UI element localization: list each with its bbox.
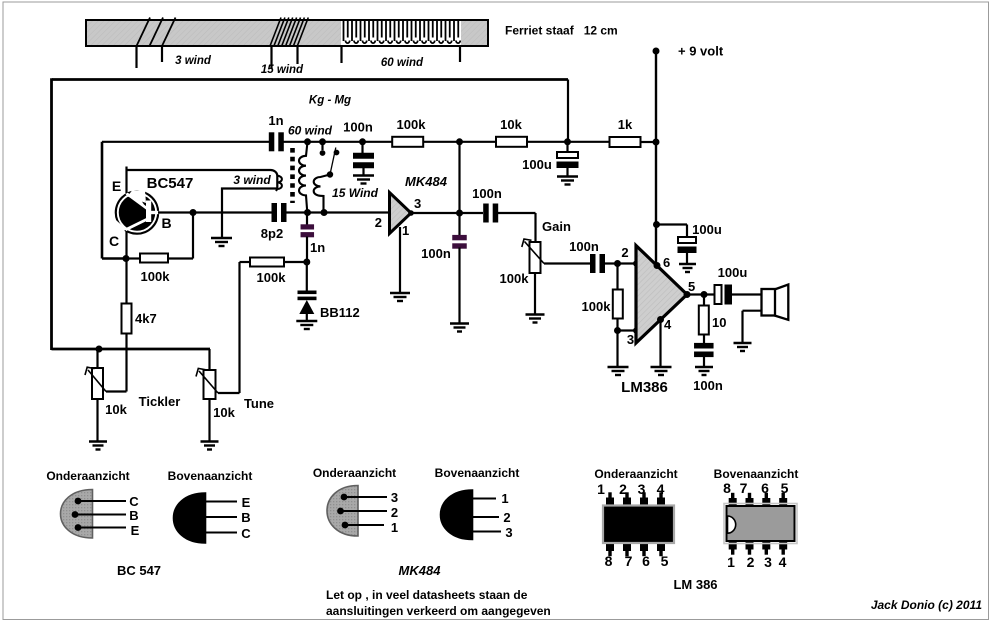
coil L3 60 wind winding band (341, 21, 461, 45)
transformer core dashed (290, 148, 295, 203)
op-amp U1 MK484 (390, 193, 412, 234)
wire L2 lead a (270, 46, 272, 68)
wire output wire (687, 293, 715, 295)
node node base (190, 209, 197, 216)
node node varicap (303, 259, 310, 266)
svg-text:2: 2 (619, 481, 627, 497)
wire C11 to speaker (732, 293, 761, 295)
svg-text:Gain: Gain (542, 219, 571, 234)
wire L3 lead a (340, 46, 342, 63)
ground (P1 ground) (89, 442, 107, 450)
svg-text:100n: 100n (569, 239, 599, 254)
svg-text:100k: 100k (141, 269, 171, 284)
resistor R7 100k (613, 290, 623, 319)
capacitor C6 100n (452, 235, 467, 249)
resistor R8 10 (699, 306, 709, 335)
svg-text:1: 1 (391, 520, 398, 535)
svg-text:10k: 10k (213, 405, 235, 420)
wire L1 lead a (135, 46, 137, 68)
wire collector feedback to C1 (102, 141, 269, 143)
BC547 bottom view pins (75, 501, 126, 528)
wire C2 to ground (362, 167, 364, 175)
svg-text:Kg - Mg: Kg - Mg (309, 95, 351, 107)
package LM386 top view DIP8 (724, 493, 797, 555)
svg-text:5: 5 (688, 279, 695, 294)
capacitor C10 100n (694, 343, 714, 357)
package MK484 bottom view (327, 486, 358, 537)
wire R5 to varicap node (284, 261, 307, 263)
node node top of primary (304, 138, 311, 145)
node node pin3 edge (633, 328, 639, 334)
wire emitter to tickler coil (127, 170, 278, 238)
svg-text:4k7: 4k7 (135, 311, 157, 326)
package MK484 top view (441, 490, 473, 540)
ground (U2 pin4 ground) (651, 367, 672, 375)
wire Q1 base wire (158, 211, 272, 213)
wire gain pot bottom lead (534, 273, 536, 315)
wire L3 lead b (459, 46, 461, 62)
resistor R5 100k (250, 258, 284, 267)
resistor R4 100k (140, 254, 168, 263)
svg-text:MK484: MK484 (405, 174, 448, 189)
svg-text:100u: 100u (522, 157, 552, 172)
ground (P3 ground) (526, 315, 545, 323)
wire C9 stem (686, 225, 688, 238)
resistor P3 100k gain (530, 242, 541, 273)
wire R4 right wire (168, 257, 193, 259)
wire L4 humps (276, 176, 282, 191)
svg-text:Tickler: Tickler (139, 394, 181, 409)
wire C5 stem top (306, 213, 308, 226)
wire supply rail vertical (655, 51, 657, 266)
svg-text:3: 3 (638, 481, 646, 497)
capacitor C4 8p2 (272, 203, 287, 222)
wire C5 to tune node (306, 237, 308, 263)
node node detector out (456, 210, 463, 217)
svg-text:Bovenaanzicht: Bovenaanzicht (168, 469, 253, 483)
svg-text:3: 3 (627, 332, 634, 347)
svg-text:BC547: BC547 (147, 175, 194, 192)
svg-text:LM386: LM386 (621, 379, 668, 396)
svg-text:BC 547: BC 547 (117, 563, 161, 578)
node node tickler top (96, 346, 103, 353)
wire U1 pin1 to ground (399, 227, 401, 293)
svg-text:1: 1 (501, 491, 508, 506)
ground (C9 ground) (679, 264, 696, 272)
svg-text:MK484: MK484 (399, 563, 442, 578)
svg-text:C: C (241, 526, 251, 541)
svg-text:Onderaanzicht: Onderaanzicht (46, 469, 129, 483)
svg-text:3: 3 (391, 490, 398, 505)
wire R8 to C10 (703, 334, 705, 344)
resistor R1 100k (392, 137, 423, 147)
svg-text:10: 10 (712, 315, 726, 330)
wire base to R4 (192, 213, 194, 259)
package LM386 bottom view DIP8 (603, 492, 674, 556)
ground (speaker ground) (734, 343, 752, 351)
wire loop right drop (567, 80, 569, 143)
svg-text:2: 2 (391, 505, 398, 520)
wire P2 wiper to riser (218, 392, 240, 394)
svg-text:C: C (109, 233, 119, 249)
wire speaker return a (743, 310, 762, 312)
svg-text:1: 1 (727, 554, 735, 570)
wire tickler bottom lead (96, 399, 98, 442)
ferrite rod bar (86, 20, 488, 46)
wire C7 to gain pot (498, 212, 536, 214)
capacitor C9 100u electrolytic (678, 237, 696, 243)
wire C6 to ground (458, 248, 460, 324)
wire L2 lead b (296, 46, 298, 64)
wire tune wiper riser (238, 262, 240, 393)
svg-text:Jack Donio (c) 2011: Jack Donio (c) 2011 (871, 598, 982, 612)
wire tune top lead (208, 349, 210, 370)
node node U2 pin2 (633, 261, 639, 267)
wire P1 wiper to R6 (106, 390, 127, 392)
svg-text:15 Wind: 15 Wind (332, 186, 379, 200)
svg-text:100k: 100k (582, 299, 612, 314)
svg-text:60 wind: 60 wind (381, 57, 424, 69)
svg-text:2: 2 (503, 510, 510, 525)
capacitor C8 100n (590, 254, 605, 273)
svg-text:+ 9 volt: + 9 volt (678, 44, 724, 59)
svg-text:1n: 1n (310, 240, 325, 255)
svg-text:8p2: 8p2 (261, 226, 283, 241)
svg-text:4: 4 (664, 317, 672, 332)
svg-text:2: 2 (375, 215, 382, 230)
svg-text:100n: 100n (693, 378, 723, 393)
node supply +9V terminal (653, 48, 660, 55)
svg-text:5: 5 (661, 553, 669, 569)
ground (P2 ground) (201, 442, 219, 450)
resistor P2 10k tune (204, 370, 216, 399)
MK484 bottom view pins (341, 497, 388, 525)
resistor R2 10k (496, 137, 527, 147)
wire U1 output wire (411, 212, 460, 214)
switch S1 band select (320, 142, 340, 178)
svg-text:2: 2 (621, 245, 628, 260)
resistor R3 1k (610, 137, 641, 147)
speaker LS1 (762, 285, 789, 320)
svg-text:E: E (131, 523, 140, 538)
potentiometer P3 arrow (522, 239, 544, 264)
ground (C10 ground) (695, 367, 713, 375)
svg-text:B: B (161, 215, 171, 231)
svg-text:60 wind: 60 wind (288, 124, 333, 138)
wire R3 to rail (640, 141, 656, 143)
svg-text:10k: 10k (105, 402, 127, 417)
node node collector (123, 255, 130, 262)
svg-text:100n: 100n (472, 186, 502, 201)
svg-text:6: 6 (642, 553, 650, 569)
coil L1 3 wind diagonal turns (137, 18, 176, 47)
wire R7 to ground (616, 319, 618, 368)
capacitor C2 100n (353, 153, 374, 169)
svg-text:100n: 100n (343, 120, 373, 135)
wire R6 to P1 wiper (125, 334, 127, 392)
wire detector load vertical (458, 142, 460, 235)
svg-text:BB112: BB112 (320, 305, 360, 320)
node node R1-R2 (456, 138, 463, 145)
svg-text:Bovenaanzicht: Bovenaanzicht (435, 466, 520, 480)
MK484 top view pins (473, 499, 502, 532)
wire R2 to R3 (526, 141, 610, 143)
wire to pin3 (618, 329, 637, 331)
package BC547 top view (174, 493, 206, 543)
wire C8 to U2 pin2 (605, 262, 636, 264)
svg-text:6: 6 (761, 480, 769, 496)
wire bottom loop horizontal (52, 348, 211, 351)
capacitor C5 1n (301, 224, 315, 237)
wire C2 stem (361, 142, 363, 155)
wire Q1 emitter lead (125, 167, 127, 194)
resistor R6 4k7 (122, 304, 132, 334)
svg-text:100u: 100u (692, 222, 722, 237)
svg-text:7: 7 (625, 553, 633, 569)
ground (U2 input ground) (608, 367, 629, 375)
wire base line to MK484 (287, 211, 390, 213)
wire top loop horizontal (52, 78, 568, 81)
node node pin4 (657, 316, 664, 323)
node node rail-R3 (653, 139, 660, 146)
wire to R7 (616, 264, 618, 291)
svg-text:Let op , in veel datasheets s: Let op , in veel datasheets staan de (326, 588, 528, 602)
wire tickler top lead (96, 349, 98, 368)
resistor P1 10k tickler (92, 368, 103, 399)
svg-text:3: 3 (764, 554, 772, 570)
svg-text:6: 6 (663, 255, 670, 270)
wire gain pot top lead (534, 213, 536, 242)
wire feedback vertical (101, 142, 104, 259)
wire speaker return b (741, 311, 743, 343)
svg-text:Onderaanzicht: Onderaanzicht (313, 466, 396, 480)
svg-text:100u: 100u (718, 265, 748, 280)
node node secondary bottom (321, 209, 328, 216)
node node output (701, 291, 708, 298)
svg-text:10k: 10k (500, 117, 522, 132)
svg-text:100n: 100n (421, 246, 451, 261)
svg-text:E: E (112, 178, 121, 194)
wire R5 left wire (240, 261, 251, 263)
capacitor C7 100n (483, 204, 498, 223)
ground (C6 ground) (450, 324, 469, 332)
wire pin4 to ground (659, 320, 661, 368)
wire C1 to R1 (284, 141, 393, 143)
wire bypass wire (657, 223, 688, 225)
node node decoupling (564, 138, 571, 145)
wire L6 15 wind winding (314, 175, 330, 213)
svg-text:15 wind: 15 wind (261, 64, 304, 76)
svg-text:100k: 100k (257, 270, 287, 285)
ground (C2 ground) (353, 176, 374, 184)
wire to C7 (460, 212, 484, 214)
svg-text:4: 4 (779, 554, 787, 570)
svg-text:LM 386: LM 386 (673, 577, 717, 592)
svg-text:E: E (242, 495, 251, 510)
svg-text:3 wind: 3 wind (233, 173, 271, 187)
svg-text:1n: 1n (268, 113, 283, 128)
package BC547 bottom view (61, 490, 93, 539)
ground (D1 ground) (296, 321, 317, 329)
capacitor C3 100u electrolytic (557, 152, 578, 158)
varicap D1 BB112 (298, 262, 317, 321)
capacitor C1 1n (269, 132, 284, 151)
svg-text:7: 7 (740, 480, 748, 496)
wire Q1 collector lead (125, 231, 127, 304)
svg-text:Tune: Tune (244, 396, 274, 411)
wire C3 stem (566, 142, 568, 152)
ground (U1 ground) (390, 293, 410, 301)
svg-text:Onderaanzicht: Onderaanzicht (594, 467, 677, 481)
node node U2 in (614, 260, 621, 267)
potentiometer P2 arrow (196, 368, 218, 393)
ground (C3 ground) (557, 177, 578, 185)
wire feedback to collector node (102, 257, 126, 260)
svg-text:4: 4 (657, 481, 665, 497)
wire C3 to ground (566, 168, 568, 176)
node node pin5 (684, 291, 691, 298)
ground (emitter coil ground) (211, 238, 232, 246)
svg-text:C: C (129, 494, 139, 509)
svg-text:8: 8 (605, 553, 613, 569)
wire zobel top (703, 295, 705, 307)
wire R1 to R2 (424, 141, 498, 143)
BC547 top view pins (206, 502, 238, 533)
svg-text:B: B (241, 510, 250, 525)
svg-text:1: 1 (597, 481, 605, 497)
node node switch feed (319, 138, 326, 145)
node node primary bottom (304, 209, 311, 216)
svg-text:100k: 100k (397, 117, 427, 132)
coil L2 15 wind diagonal turns (270, 18, 308, 47)
svg-text:1k: 1k (618, 117, 633, 132)
svg-text:3 wind: 3 wind (175, 55, 212, 67)
capacitor C11 100u electrolytic output (715, 285, 722, 304)
node node U2 pin3 (614, 327, 621, 334)
svg-text:3: 3 (505, 525, 512, 540)
transistor Q1 BC547 (115, 190, 160, 235)
node node U1 output (408, 210, 414, 216)
svg-text:Ferriet staaf 12 cm: Ferriet staaf 12 cm (505, 24, 618, 38)
node node pin6 (654, 262, 661, 269)
svg-text:B: B (129, 508, 138, 523)
node node C2 (359, 138, 366, 145)
wire P3 wiper to C8 (544, 262, 590, 264)
svg-text:2: 2 (747, 554, 755, 570)
wire left loop vertical (50, 78, 53, 350)
wire L1 lead b (161, 46, 163, 62)
node node bypass (653, 221, 660, 228)
wire C9 to ground (686, 253, 688, 264)
svg-text:Bovenaanzicht: Bovenaanzicht (714, 467, 799, 481)
svg-text:100k: 100k (500, 271, 530, 286)
wire R4 left wire (126, 257, 140, 259)
wire tune bottom lead (208, 399, 210, 442)
svg-text:5: 5 (781, 480, 789, 496)
wire C10 to ground (703, 356, 705, 367)
svg-text:8: 8 (723, 480, 731, 496)
svg-text:3: 3 (414, 196, 421, 211)
op-amp U2 LM386 (636, 246, 687, 344)
svg-text:aansluitingen verkeerd om aang: aansluitingen verkeerd om aangegeven (326, 604, 551, 618)
potentiometer P1 arrow (85, 367, 106, 391)
wire L5 60 wind winding (299, 142, 308, 213)
svg-text:1: 1 (402, 223, 409, 238)
